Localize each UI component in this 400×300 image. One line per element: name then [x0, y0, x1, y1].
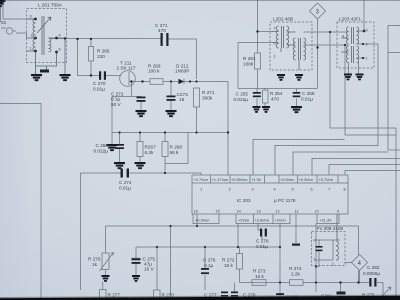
svg-text:2 SK 117: 2 SK 117	[117, 66, 136, 71]
svg-text:0.022µ: 0.022µ	[94, 149, 109, 154]
svg-text:+0.3Von: +0.3Von	[195, 218, 209, 223]
svg-text:µ PC 1178: µ PC 1178	[274, 198, 296, 203]
svg-text:R 272: R 272	[222, 258, 235, 263]
svg-text:IC 203: IC 203	[237, 198, 251, 203]
svg-text:10 k: 10 k	[224, 263, 234, 268]
svg-text:C 279: C 279	[256, 239, 269, 244]
svg-text:R 268: R 268	[170, 145, 183, 150]
svg-text:7: 7	[274, 27, 276, 31]
svg-text:16: 16	[194, 210, 198, 214]
svg-text:R 254: R 254	[270, 91, 283, 96]
svg-text:18: 18	[179, 97, 185, 102]
svg-text:0.01µ: 0.01µ	[256, 244, 268, 249]
svg-text:1: 1	[314, 258, 316, 262]
svg-text:12: 12	[276, 210, 280, 214]
svg-text:9: 9	[337, 210, 339, 214]
svg-text:2: 2	[274, 42, 276, 46]
svg-text:3: 3	[30, 15, 32, 19]
svg-text:5: 5	[292, 188, 294, 192]
svg-text:6.2k: 6.2k	[145, 150, 155, 155]
svg-text:C 270: C 270	[93, 81, 106, 86]
svg-text:300k: 300k	[202, 96, 213, 101]
svg-text:1: 1	[30, 47, 32, 51]
svg-text:R 273: R 273	[253, 269, 266, 274]
svg-text:R 271: R 271	[202, 90, 215, 95]
svg-text:R 274: R 274	[289, 266, 302, 271]
svg-text:1: 1	[274, 55, 276, 59]
svg-text:+0.55Von: +0.55Von	[231, 177, 248, 182]
svg-text:L203 42FL: L203 42FL	[339, 17, 362, 22]
svg-text:2: 2	[366, 43, 368, 47]
svg-text:+1.17Von: +1.17Von	[212, 177, 229, 182]
svg-text:0.1µ: 0.1µ	[111, 97, 121, 102]
svg-text:01: 01	[1, 20, 7, 25]
svg-text:50 V: 50 V	[111, 102, 122, 107]
svg-text:100 k: 100 k	[148, 69, 160, 74]
svg-text:C 282: C 282	[367, 265, 380, 270]
svg-text:7: 7	[328, 188, 330, 192]
svg-text:6: 6	[311, 188, 313, 192]
svg-text:0.0056µ: 0.0056µ	[363, 271, 380, 276]
svg-text:10 k: 10 k	[255, 274, 265, 279]
svg-text:R267: R267	[145, 145, 157, 150]
svg-text:+2.6Von: +2.6Von	[280, 177, 294, 182]
svg-text:1N60P: 1N60P	[175, 69, 189, 74]
svg-text:L202 46B: L202 46B	[273, 17, 293, 22]
svg-text:1k: 1k	[92, 262, 98, 267]
svg-text:2: 2	[31, 34, 33, 38]
svg-text:10: 10	[315, 210, 319, 214]
svg-text:220: 220	[97, 54, 105, 59]
svg-text:0.01µ: 0.01µ	[119, 186, 131, 191]
svg-text:0.022µ: 0.022µ	[234, 97, 249, 102]
svg-text:3: 3	[252, 188, 254, 192]
svg-text:0.01µ: 0.01µ	[93, 87, 105, 92]
svg-text:4: 4	[59, 34, 61, 38]
svg-text:470: 470	[158, 28, 166, 33]
svg-text:R 266: R 266	[97, 49, 110, 54]
svg-text:11: 11	[295, 210, 299, 214]
svg-text:13: 13	[257, 210, 261, 214]
svg-text:C 255: C 255	[236, 92, 249, 97]
svg-text:R 276: R 276	[88, 257, 101, 262]
svg-text:2.2k: 2.2k	[291, 272, 301, 277]
svg-text:R 281: R 281	[243, 56, 256, 61]
svg-text:+1.3V: +1.3V	[251, 177, 262, 182]
svg-text:1: 1	[200, 188, 202, 192]
svg-text:1: 1	[366, 57, 368, 61]
svg-text:+2Von: +2Von	[238, 218, 249, 223]
svg-text:L 201 T09A: L 201 T09A	[38, 3, 63, 8]
svg-text:4: 4	[314, 239, 316, 243]
svg-text:4: 4	[342, 35, 344, 39]
svg-text:+2.6Von: +2.6Von	[255, 218, 269, 223]
svg-text:56 k: 56 k	[170, 150, 180, 155]
svg-text:14: 14	[237, 210, 241, 214]
svg-text:15: 15	[216, 210, 220, 214]
svg-text:+0.7Von: +0.7Von	[319, 177, 333, 182]
svg-text:+0.3Von: +0.3Von	[299, 177, 313, 182]
svg-text:16 V: 16 V	[144, 267, 155, 272]
svg-text:C 276: C 276	[203, 258, 216, 263]
svg-text:6: 6	[59, 48, 61, 52]
svg-text:C 258: C 258	[302, 91, 315, 96]
svg-text:6: 6	[366, 29, 368, 33]
svg-text:470: 470	[271, 97, 279, 102]
svg-text:0.01µ: 0.01µ	[301, 97, 313, 102]
svg-text:C 266: C 266	[96, 143, 109, 148]
svg-text:Fv 209 4108: Fv 209 4108	[317, 226, 343, 231]
svg-text:+11.3V: +11.3V	[320, 218, 333, 223]
svg-text:0.1µ: 0.1µ	[204, 263, 214, 268]
svg-text:8: 8	[344, 188, 346, 192]
svg-text:2: 2	[229, 188, 231, 192]
svg-text:100k: 100k	[243, 62, 254, 67]
svg-text:4: 4	[274, 188, 276, 192]
svg-text:C 274: C 274	[119, 180, 132, 185]
svg-text:+2Von: +2Von	[275, 218, 286, 223]
svg-text:+2.7Von: +2.7Von	[194, 177, 208, 182]
